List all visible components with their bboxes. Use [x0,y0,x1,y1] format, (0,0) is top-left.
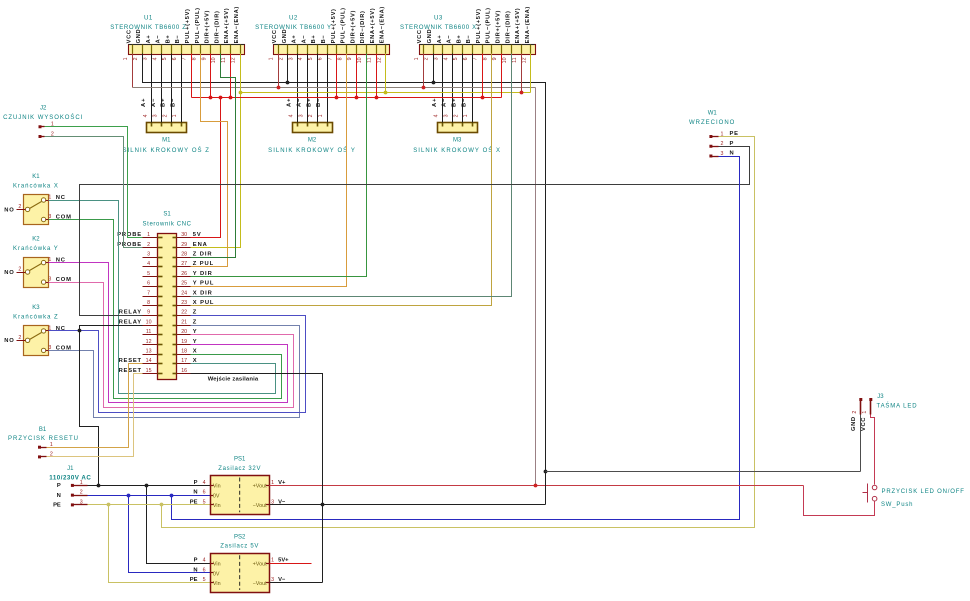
svg-text:A−: A− [447,35,453,44]
svg-text:4: 4 [443,57,449,60]
svg-text:VCC: VCC [126,29,132,43]
svg-text:6: 6 [318,57,324,60]
svg-text:J2: J2 [40,106,47,112]
svg-text:A−: A− [297,97,303,107]
svg-text:5: 5 [147,271,150,277]
svg-text:3: 3 [433,57,439,60]
svg-text:1: 1 [721,131,724,137]
svg-text:28: 28 [181,252,187,258]
svg-text:P: P [194,480,198,486]
svg-text:2: 2 [18,204,21,210]
svg-text:ENA−(ENA): ENA−(ENA) [380,6,386,43]
svg-text:RELAY: RELAY [119,319,142,325]
svg-text:2: 2 [424,57,430,60]
svg-text:DIR−(DIR): DIR−(DIR) [360,10,366,43]
svg-text:B+: B+ [451,97,457,107]
svg-text:5: 5 [453,57,459,60]
svg-text:A+: A+ [432,97,438,107]
svg-text:2: 2 [50,452,53,458]
svg-text:K2: K2 [32,237,40,243]
svg-text:11: 11 [367,57,373,63]
svg-text:PUL−(PUL): PUL−(PUL) [486,7,492,43]
svg-text:Zasilacz 5V: Zasilacz 5V [220,544,259,550]
svg-text:1: 1 [147,232,150,238]
svg-text:+Vout: +Vout [253,484,267,490]
svg-text:NO: NO [4,338,14,344]
svg-text:4: 4 [143,114,149,117]
svg-text:N: N [193,490,197,496]
svg-text:DIR−(DIR): DIR−(DIR) [214,10,220,43]
svg-text:ENA+(+5V): ENA+(+5V) [370,8,376,44]
svg-text:PE: PE [190,499,198,505]
svg-text:B−: B− [321,35,327,44]
svg-text:STEROWNIK TB6600 Y: STEROWNIK TB6600 Y [255,24,332,31]
svg-text:SILNIK KROKOWY OŚ Z: SILNIK KROKOWY OŚ Z [123,146,211,154]
svg-text:4: 4 [152,57,158,60]
svg-text:10: 10 [211,57,217,63]
svg-text:B+: B+ [456,35,462,44]
svg-text:10: 10 [357,57,363,63]
svg-text:12: 12 [522,57,528,63]
svg-text:NC: NC [56,326,66,332]
svg-text:6: 6 [203,490,206,496]
svg-text:2: 2 [308,114,314,117]
svg-text:PROBE: PROBE [117,242,142,248]
svg-text:J3: J3 [877,394,884,400]
svg-text:1: 1 [269,57,275,60]
svg-text:−Vout: −Vout [253,503,267,509]
svg-text:Vin: Vin [213,503,221,509]
svg-text:7: 7 [147,290,150,296]
svg-text:STEROWNIK TB6600 X: STEROWNIK TB6600 X [400,24,477,31]
svg-text:2: 2 [279,57,285,60]
svg-text:ENA+(+5V): ENA+(+5V) [224,8,230,44]
svg-text:3: 3 [48,277,51,283]
svg-text:PUL−(PUL): PUL−(PUL) [195,7,201,43]
svg-text:Z DIR: Z DIR [193,252,213,258]
svg-text:Z: Z [193,310,197,316]
svg-text:Vin: Vin [213,484,221,490]
svg-text:14: 14 [146,358,152,364]
svg-text:PRZYCISK RESETU: PRZYCISK RESETU [8,436,79,442]
svg-text:PE: PE [53,503,61,509]
svg-text:ENA+(+5V): ENA+(+5V) [515,8,521,44]
svg-text:DIR+(+5V): DIR+(+5V) [496,10,502,43]
svg-text:DIR+(+5V): DIR+(+5V) [205,10,211,43]
svg-text:0V: 0V [213,493,220,499]
svg-text:ENA−(ENA): ENA−(ENA) [234,6,240,43]
svg-text:A+: A+ [437,35,443,44]
svg-text:1: 1 [48,195,51,201]
svg-text:VCC: VCC [861,417,867,431]
svg-text:CZUJNIK WYSOKOŚCI: CZUJNIK WYSOKOŚCI [3,113,83,121]
svg-text:18: 18 [181,349,187,355]
svg-text:16: 16 [181,368,187,374]
svg-text:5V: 5V [193,232,202,238]
svg-text:U3: U3 [434,14,443,21]
svg-text:GND: GND [282,29,288,44]
svg-text:12: 12 [231,57,237,63]
svg-text:1: 1 [271,480,274,486]
svg-text:6: 6 [463,57,469,60]
svg-text:−Vout: −Vout [253,581,267,587]
svg-text:Z: Z [193,319,197,325]
svg-text:PS1: PS1 [234,457,246,463]
svg-text:11: 11 [221,57,227,63]
svg-text:PUL+(+5V): PUL+(+5V) [476,8,482,43]
svg-text:Vin: Vin [213,562,221,568]
svg-text:1: 1 [80,480,83,486]
svg-text:Sterownik CNC: Sterownik CNC [143,221,192,227]
svg-text:A−: A− [442,97,448,107]
svg-text:GND: GND [427,29,433,44]
svg-text:B+: B+ [165,35,171,44]
svg-text:Krańcówka X: Krańcówka X [13,184,59,190]
svg-text:A+: A+ [292,35,298,44]
svg-text:GND: GND [851,416,857,431]
svg-text:2: 2 [133,57,139,60]
svg-text:U1: U1 [144,14,153,21]
svg-text:8: 8 [147,300,150,306]
svg-text:2: 2 [852,411,858,414]
svg-text:B−: B− [170,97,176,107]
svg-text:27: 27 [181,261,187,267]
svg-text:ENA−(ENA): ENA−(ENA) [525,6,531,43]
svg-text:1: 1 [50,442,53,448]
svg-text:RELAY: RELAY [119,310,142,316]
svg-text:9: 9 [147,310,150,316]
svg-text:NO: NO [4,270,14,276]
svg-text:7: 7 [473,57,479,60]
svg-text:PE: PE [730,131,739,137]
svg-text:29: 29 [181,242,187,248]
svg-text:1: 1 [463,114,469,117]
svg-text:26: 26 [181,271,187,277]
svg-text:PRZYCISK LED ON/OFF: PRZYCISK LED ON/OFF [882,489,965,495]
svg-text:Krańcówka Z: Krańcówka Z [13,315,58,321]
svg-text:21: 21 [181,319,187,325]
svg-text:M3: M3 [453,138,462,144]
svg-text:6: 6 [172,57,178,60]
svg-text:25: 25 [181,281,187,287]
svg-text:2: 2 [51,131,54,137]
svg-text:22: 22 [181,310,187,316]
svg-text:PE: PE [190,577,198,583]
svg-text:VCC: VCC [417,29,423,43]
svg-text:0V: 0V [213,571,220,577]
svg-text:15: 15 [146,368,152,374]
svg-text:3: 3 [443,114,449,117]
svg-text:A+: A+ [287,97,293,107]
svg-text:DIR+(+5V): DIR+(+5V) [350,10,356,43]
svg-text:4: 4 [203,480,206,486]
svg-text:B−: B− [461,97,467,107]
svg-text:1: 1 [123,57,129,60]
svg-text:M1: M1 [162,138,171,144]
svg-text:4: 4 [289,114,295,117]
svg-text:A−: A− [156,35,162,44]
svg-text:110/230V AC: 110/230V AC [49,475,91,482]
svg-text:Wejście zasilania: Wejście zasilania [208,376,259,382]
svg-text:17: 17 [181,358,187,364]
svg-text:3: 3 [80,499,83,505]
svg-text:A+: A+ [146,35,152,44]
svg-text:P: P [194,558,198,564]
svg-text:1: 1 [51,122,54,128]
svg-text:GND: GND [136,29,142,44]
svg-text:P: P [730,141,735,147]
svg-text:PUL+(+5V): PUL+(+5V) [331,8,337,43]
svg-text:6: 6 [147,281,150,287]
svg-text:K1: K1 [32,174,40,180]
svg-text:N: N [730,151,735,157]
svg-text:19: 19 [181,339,187,345]
svg-text:WRZECIONO: WRZECIONO [689,120,735,126]
svg-text:A−: A− [151,97,157,107]
svg-text:Y PUL: Y PUL [193,281,214,287]
svg-text:30: 30 [181,232,187,238]
svg-text:1: 1 [318,114,324,117]
svg-text:SILNIK KROKOWY OŚ Y: SILNIK KROKOWY OŚ Y [268,146,356,154]
svg-text:Y: Y [193,339,198,345]
svg-text:B−: B− [466,35,472,44]
svg-text:SILNIK KROKOWY OŚ X: SILNIK KROKOWY OŚ X [413,146,501,154]
svg-text:5: 5 [203,577,206,583]
svg-text:Y DIR: Y DIR [193,271,213,277]
svg-text:NO: NO [4,207,14,213]
svg-text:3: 3 [288,57,294,60]
svg-text:A−: A− [301,35,307,44]
svg-text:2: 2 [80,490,83,496]
svg-text:DIR−(DIR): DIR−(DIR) [505,10,511,43]
svg-text:4: 4 [434,114,440,117]
svg-text:Krańcówka Y: Krańcówka Y [13,246,59,252]
svg-text:TAŚMA LED: TAŚMA LED [877,402,918,410]
svg-text:20: 20 [181,329,187,335]
svg-text:STEROWNIK TB6600 Z: STEROWNIK TB6600 Z [110,24,186,31]
svg-text:4: 4 [298,57,304,60]
svg-text:2: 2 [18,267,21,273]
svg-text:3: 3 [298,114,304,117]
svg-text:1: 1 [271,558,274,564]
svg-text:V+: V+ [278,480,286,486]
svg-text:10: 10 [146,319,152,325]
svg-text:PUL+(+5V): PUL+(+5V) [185,8,191,43]
svg-text:A+: A+ [141,97,147,107]
svg-text:B1: B1 [39,427,47,433]
svg-text:1: 1 [414,57,420,60]
svg-text:SW_Push: SW_Push [881,502,913,508]
svg-text:1: 1 [862,411,868,414]
svg-text:2: 2 [453,114,459,117]
svg-text:U2: U2 [289,14,298,21]
svg-text:2: 2 [721,141,724,147]
svg-text:6: 6 [203,567,206,573]
svg-text:4: 4 [147,261,150,267]
svg-text:2: 2 [162,114,168,117]
svg-text:P: P [57,483,61,489]
svg-text:5: 5 [308,57,314,60]
svg-text:B+: B+ [306,97,312,107]
svg-text:12: 12 [376,57,382,63]
svg-text:+Vout: +Vout [253,562,267,568]
svg-text:S1: S1 [163,212,171,218]
svg-text:ENA: ENA [193,242,208,248]
svg-text:13: 13 [146,349,152,355]
svg-text:B+: B+ [161,97,167,107]
svg-text:K3: K3 [32,305,40,311]
svg-text:1: 1 [172,114,178,117]
svg-text:2: 2 [18,335,21,341]
svg-text:9: 9 [347,57,353,60]
svg-text:4: 4 [203,558,206,564]
svg-text:5V+: 5V+ [278,558,289,564]
svg-text:Vin: Vin [213,581,221,587]
svg-text:2: 2 [147,242,150,248]
svg-text:8: 8 [337,57,343,60]
svg-text:Zasilacz 32V: Zasilacz 32V [218,466,261,472]
svg-text:11: 11 [512,57,518,63]
svg-text:24: 24 [181,290,187,296]
svg-text:7: 7 [327,57,333,60]
svg-text:9: 9 [492,57,498,60]
svg-text:5: 5 [162,57,168,60]
svg-text:9: 9 [201,57,207,60]
svg-text:23: 23 [181,300,187,306]
svg-text:W1: W1 [708,111,718,117]
svg-text:3: 3 [721,151,724,157]
svg-text:VCC: VCC [272,29,278,43]
svg-text:8: 8 [482,57,488,60]
svg-text:11: 11 [146,329,152,335]
svg-text:N: N [193,567,197,573]
svg-text:Z PUL: Z PUL [193,261,214,267]
svg-text:B+: B+ [311,35,317,44]
svg-text:7: 7 [182,57,188,60]
svg-text:X: X [193,349,198,355]
svg-text:X DIR: X DIR [193,290,213,296]
svg-text:PS2: PS2 [234,534,246,540]
svg-text:5: 5 [203,499,206,505]
svg-text:12: 12 [146,339,152,345]
svg-text:X PUL: X PUL [193,300,215,306]
svg-text:B−: B− [175,35,181,44]
svg-text:PUL−(PUL): PUL−(PUL) [341,7,347,43]
svg-text:N: N [57,493,61,499]
svg-text:3: 3 [153,114,159,117]
svg-text:3: 3 [143,57,149,60]
svg-text:B−: B− [316,97,322,107]
svg-text:8: 8 [192,57,198,60]
svg-text:3: 3 [147,252,150,258]
svg-text:M2: M2 [308,138,317,144]
svg-text:10: 10 [502,57,508,63]
svg-text:J1: J1 [67,466,74,472]
